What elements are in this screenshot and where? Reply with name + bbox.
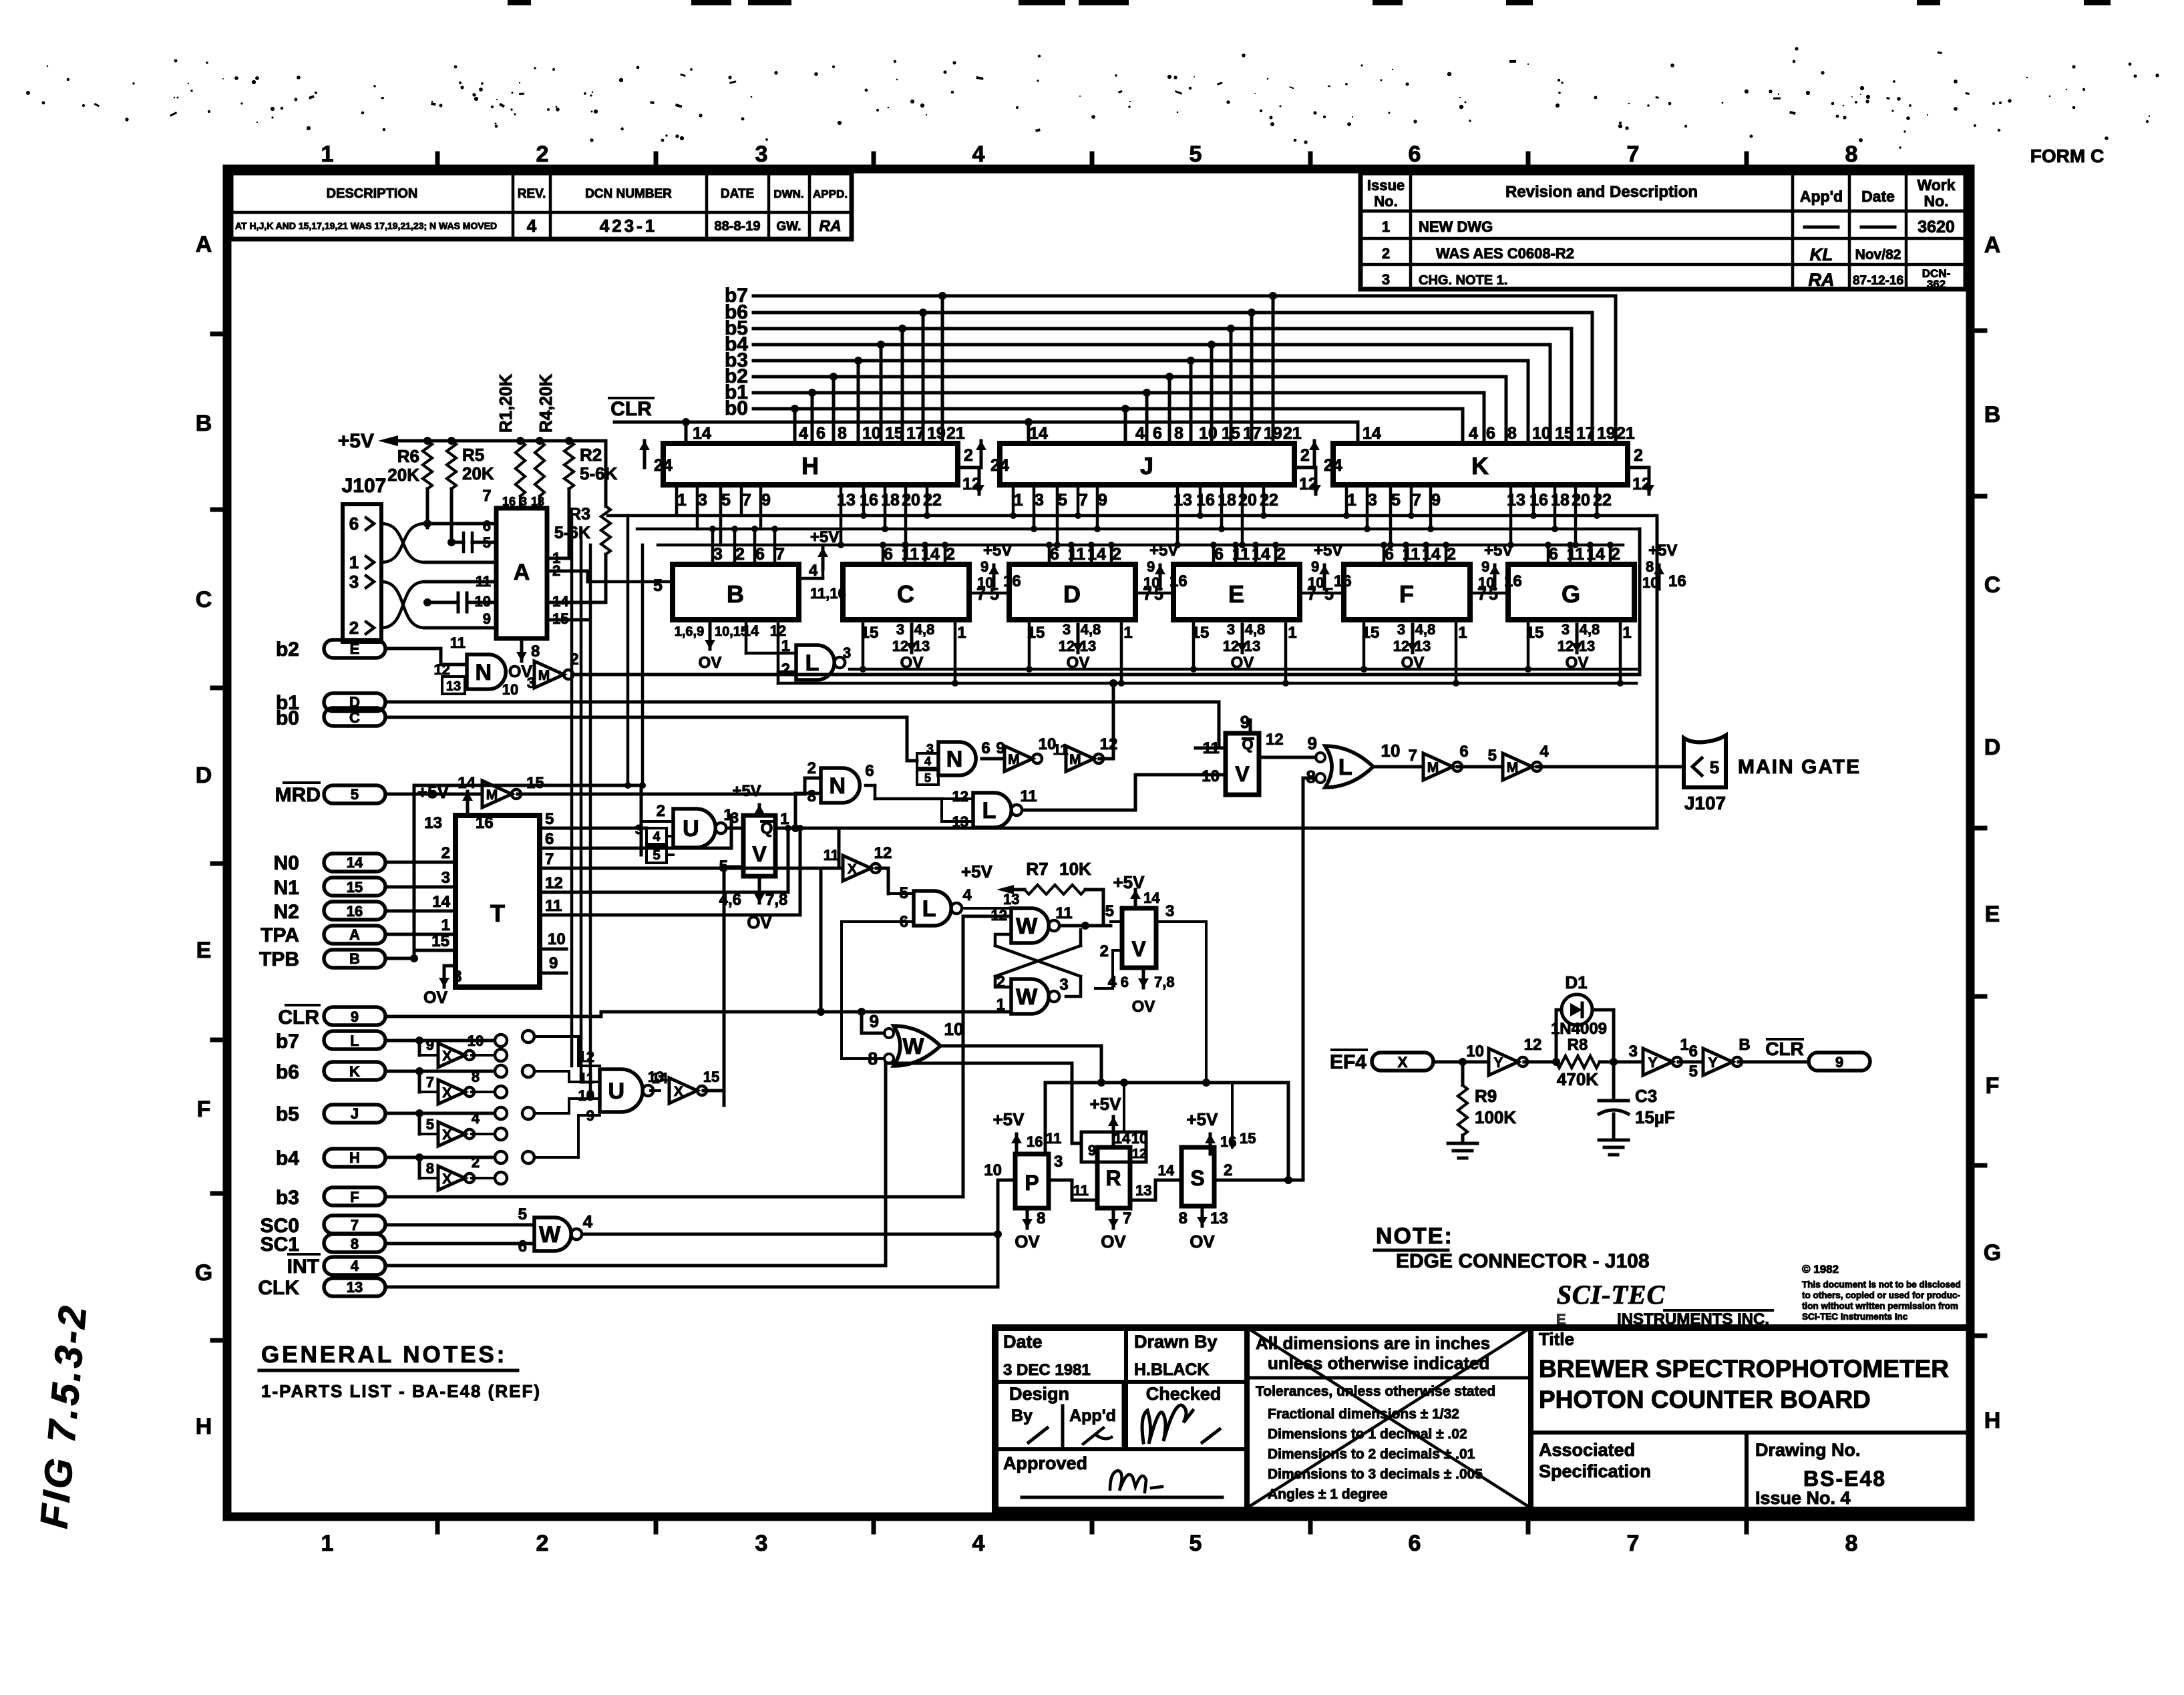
input EF4 connector X <box>1330 1050 1489 1073</box>
svg-text:12: 12 <box>1059 638 1075 654</box>
gate U1 (NAND 4-in) <box>635 785 733 863</box>
svg-text:5: 5 <box>924 771 931 785</box>
svg-text:W: W <box>1016 914 1038 939</box>
svg-text:12: 12 <box>1393 638 1409 654</box>
svg-text:7: 7 <box>1627 1531 1640 1556</box>
svg-text:88-8-19: 88-8-19 <box>715 219 761 234</box>
svg-text:7: 7 <box>1412 491 1421 510</box>
svg-text:SC1: SC1 <box>260 1234 299 1256</box>
svg-text:4,8: 4,8 <box>1245 621 1266 638</box>
IC F (latch) <box>1300 542 1522 687</box>
svg-text:No.: No. <box>1924 192 1948 210</box>
svg-text:L: L <box>805 650 820 676</box>
svg-text:4: 4 <box>924 755 931 768</box>
svg-text:17: 17 <box>906 424 925 443</box>
svg-text:1,6,9: 1,6,9 <box>675 624 704 639</box>
svg-text:X: X <box>442 1085 451 1101</box>
svg-text:NOTE:: NOTE: <box>1376 1223 1453 1249</box>
svg-text:5: 5 <box>1710 757 1719 777</box>
input MRD connector 5 <box>275 783 482 806</box>
svg-text:7: 7 <box>1079 491 1088 510</box>
svg-text:14: 14 <box>1029 424 1048 443</box>
svg-text:9: 9 <box>1481 558 1489 575</box>
svg-text:Work: Work <box>1917 176 1955 194</box>
svg-text:1: 1 <box>1347 491 1356 510</box>
svg-text:H: H <box>1984 1408 2001 1433</box>
svg-text:F: F <box>197 1097 211 1122</box>
jumper terminals column <box>522 1030 588 1163</box>
ground (C3) <box>1599 1139 1628 1142</box>
gate N3 (AND 3-in) <box>917 739 1005 785</box>
svg-text:11: 11 <box>1073 1182 1089 1199</box>
svg-text:B: B <box>1984 402 2001 427</box>
svg-text:13: 13 <box>446 679 461 694</box>
input CLR connector 9 <box>278 868 1009 1033</box>
svg-text:4,6: 4,6 <box>719 891 741 909</box>
input b4 connector H <box>276 1147 507 1178</box>
resistor R8 470K <box>1556 1036 1614 1089</box>
svg-text:H: H <box>801 452 819 480</box>
svg-text:5: 5 <box>483 534 491 551</box>
svg-text:Revision and Description: Revision and Description <box>1505 183 1698 201</box>
input b1 connector D <box>276 692 1219 714</box>
svg-text:K: K <box>1471 452 1489 480</box>
svg-text:+5V: +5V <box>961 862 993 882</box>
svg-text:NEW DWG: NEW DWG <box>1419 218 1493 235</box>
svg-text:24: 24 <box>654 456 673 475</box>
svg-text:X: X <box>848 862 857 877</box>
svg-text:5: 5 <box>1105 902 1114 920</box>
svg-text:6: 6 <box>1409 142 1421 167</box>
svg-text:2: 2 <box>1611 545 1620 564</box>
copyright block <box>1802 1263 1961 1322</box>
svg-text:GW.: GW. <box>777 220 801 234</box>
svg-text:2: 2 <box>349 618 359 638</box>
svg-text:2: 2 <box>1447 545 1456 564</box>
svg-text:2: 2 <box>1300 446 1310 465</box>
svg-text:5: 5 <box>518 1205 527 1223</box>
svg-text:3: 3 <box>713 545 723 564</box>
svg-text:1: 1 <box>1458 624 1467 642</box>
svg-text:6: 6 <box>545 830 554 848</box>
svg-text:V: V <box>1235 762 1250 786</box>
wires counter outputs to latch rails <box>588 485 1657 582</box>
output CLR connector 9 <box>1765 1039 1870 1071</box>
twisted pair wires <box>381 520 496 628</box>
trunk verticals <box>572 516 646 1099</box>
svg-text:1: 1 <box>1123 624 1132 642</box>
svg-text:3: 3 <box>1165 902 1174 920</box>
svg-text:10: 10 <box>475 593 491 610</box>
svg-text:CLR: CLR <box>1765 1039 1804 1059</box>
svg-text:1-PARTS LIST - BA-E48 (REF): 1-PARTS LIST - BA-E48 (REF) <box>261 1381 541 1401</box>
svg-text:Title: Title <box>1539 1329 1574 1349</box>
svg-text:19: 19 <box>927 424 946 443</box>
svg-text:423-1: 423-1 <box>600 216 658 236</box>
diode D1 1N4009 <box>1551 972 1618 1066</box>
IC R <box>1081 1094 1181 1252</box>
svg-text:BREWER SPECTROPHOTOMETER: BREWER SPECTROPHOTOMETER <box>1539 1355 1949 1382</box>
svg-text:2: 2 <box>1634 446 1643 465</box>
svg-text:8: 8 <box>1845 1531 1858 1556</box>
IC B (latch) <box>653 526 846 672</box>
svg-text:5-6K: 5-6K <box>580 463 618 484</box>
svg-text:6: 6 <box>1121 974 1129 990</box>
svg-text:H: H <box>349 1149 360 1166</box>
svg-text:OV: OV <box>1132 998 1155 1016</box>
svg-text:C: C <box>1984 572 2001 598</box>
svg-text:3: 3 <box>441 869 450 887</box>
svg-text:DESCRIPTION: DESCRIPTION <box>327 186 418 201</box>
svg-text:9: 9 <box>1147 558 1155 575</box>
svg-text:b0: b0 <box>276 707 299 729</box>
svg-text:4: 4 <box>972 142 985 167</box>
capacitor C1 <box>447 533 496 552</box>
svg-text:3: 3 <box>1629 1043 1638 1061</box>
svg-text:9: 9 <box>980 558 988 575</box>
gate L4 (NAND) <box>842 884 1019 1059</box>
svg-text:© 1982: © 1982 <box>1802 1263 1839 1276</box>
gate N2 (AND) <box>807 759 942 805</box>
svg-text:14: 14 <box>432 893 450 911</box>
resistor R3 5-6K <box>554 505 610 602</box>
svg-text:to others, copied or used for: to others, copied or used for produc- <box>1802 1290 1960 1300</box>
svg-text:J107: J107 <box>1684 793 1726 813</box>
svg-text:2: 2 <box>1100 942 1109 960</box>
svg-text:By: By <box>1011 1406 1033 1425</box>
svg-text:3: 3 <box>1035 491 1044 510</box>
svg-text:D: D <box>196 763 212 788</box>
note text <box>1375 1223 1650 1272</box>
svg-text:7: 7 <box>482 487 491 505</box>
svg-text:20K: 20K <box>387 465 419 485</box>
svg-text:2: 2 <box>807 759 816 777</box>
svg-text:4: 4 <box>472 1110 480 1127</box>
svg-text:4: 4 <box>962 886 972 904</box>
SCI-TEC logo <box>1556 1280 1773 1328</box>
svg-text:A: A <box>1984 232 2001 258</box>
svg-text:3: 3 <box>349 572 359 592</box>
svg-text:13: 13 <box>1080 638 1096 654</box>
resistor R9 100K <box>1458 1062 1516 1143</box>
svg-text:13: 13 <box>1210 1209 1228 1228</box>
IC S <box>1179 778 1316 1252</box>
flip-flop V1 <box>719 518 1657 1105</box>
IC J (counter) <box>976 424 1321 510</box>
svg-text:Dimensions to 1 decimal ± .02: Dimensions to 1 decimal ± .02 <box>1268 1427 1467 1442</box>
svg-text:2: 2 <box>536 142 549 167</box>
svg-text:13: 13 <box>1579 638 1595 654</box>
svg-text:N: N <box>476 660 492 685</box>
svg-text:6: 6 <box>1459 743 1468 761</box>
inverter Y2 <box>1614 1036 1703 1075</box>
svg-text:5: 5 <box>351 786 359 803</box>
flip-flop V3 <box>1095 872 1206 1083</box>
svg-text:1: 1 <box>996 996 1005 1014</box>
svg-text:F: F <box>1986 1073 2000 1099</box>
svg-text:11: 11 <box>476 573 491 590</box>
svg-text:D: D <box>1063 580 1081 608</box>
rail from L1 output under latches <box>778 620 1636 683</box>
svg-text:1: 1 <box>1622 624 1631 642</box>
svg-text:10: 10 <box>862 424 881 443</box>
svg-text:11: 11 <box>1046 1130 1061 1147</box>
svg-text:6: 6 <box>981 739 990 757</box>
svg-text:3: 3 <box>1059 976 1068 994</box>
svg-text:1: 1 <box>321 1531 334 1556</box>
svg-text:DWN.: DWN. <box>773 188 803 200</box>
inverter M2 <box>458 774 821 807</box>
svg-text:W: W <box>902 1034 924 1059</box>
wires T outputs <box>540 815 839 915</box>
svg-text:S: S <box>1190 1166 1204 1190</box>
svg-text:L: L <box>350 1032 359 1049</box>
svg-text:8: 8 <box>1845 142 1858 167</box>
svg-text:9: 9 <box>426 1037 434 1053</box>
svg-text:2: 2 <box>657 802 665 820</box>
svg-text:3: 3 <box>755 142 768 167</box>
input b0 connector C <box>276 707 917 761</box>
svg-text:15: 15 <box>347 879 363 896</box>
svg-text:11: 11 <box>1020 787 1037 805</box>
svg-text:6: 6 <box>884 545 893 564</box>
svg-text:3: 3 <box>1382 271 1390 288</box>
inverter Y1 <box>1466 1036 1556 1075</box>
svg-text:12: 12 <box>874 844 892 862</box>
svg-text:13: 13 <box>424 814 442 832</box>
svg-text:M: M <box>1069 752 1081 767</box>
svg-text:13: 13 <box>1415 638 1431 654</box>
svg-text:Fractional dimensions ± 1/32: Fractional dimensions ± 1/32 <box>1268 1406 1459 1422</box>
svg-text:6: 6 <box>1689 1043 1698 1061</box>
svg-text:b6: b6 <box>276 1061 299 1083</box>
svg-text:4: 4 <box>1539 743 1549 761</box>
svg-text:MRD: MRD <box>275 784 321 806</box>
svg-text:Date: Date <box>1861 188 1895 205</box>
svg-text:24: 24 <box>1324 456 1342 475</box>
svg-text:16: 16 <box>476 814 494 832</box>
svg-text:BS-E48: BS-E48 <box>1803 1467 1886 1491</box>
svg-text:12: 12 <box>1524 1036 1542 1054</box>
svg-text:Associated: Associated <box>1539 1440 1635 1460</box>
svg-text:L: L <box>1338 755 1352 780</box>
svg-text:3: 3 <box>1562 621 1570 638</box>
svg-text:6: 6 <box>1385 545 1394 564</box>
svg-text:+5V: +5V <box>1484 542 1513 560</box>
IC D (latch) <box>969 542 1188 687</box>
svg-text:4: 4 <box>1108 973 1117 991</box>
svg-text:R8: R8 <box>1568 1036 1588 1054</box>
svg-text:J: J <box>351 1105 359 1122</box>
svg-text:N: N <box>946 747 963 772</box>
svg-text:9: 9 <box>483 610 491 627</box>
svg-text:4: 4 <box>799 424 808 443</box>
svg-text:FORM C: FORM C <box>2030 146 2104 166</box>
inverter X1 <box>426 1032 507 1067</box>
svg-text:R4,20K: R4,20K <box>536 374 556 433</box>
svg-text:CLR: CLR <box>278 1006 319 1028</box>
svg-text:3: 3 <box>1227 621 1235 638</box>
resistor R7 10K <box>961 859 1103 930</box>
svg-text:App'd: App'd <box>1069 1406 1116 1425</box>
svg-text:8: 8 <box>838 424 847 443</box>
svg-text:G: G <box>1562 580 1580 608</box>
svg-text:2: 2 <box>1224 1161 1232 1179</box>
svg-text:U: U <box>683 816 699 841</box>
svg-text:3: 3 <box>731 809 739 826</box>
svg-text:4: 4 <box>653 829 661 844</box>
svg-text:3: 3 <box>698 491 707 510</box>
svg-text:15µF: 15µF <box>1635 1107 1675 1127</box>
svg-text:14: 14 <box>1143 890 1160 906</box>
figure number label <box>32 1302 95 1530</box>
svg-text:X: X <box>442 1171 451 1187</box>
svg-text:14: 14 <box>1158 1162 1175 1179</box>
svg-text:Nov/82: Nov/82 <box>1855 247 1901 262</box>
svg-text:Checked: Checked <box>1146 1384 1222 1404</box>
svg-text:+5V: +5V <box>1149 542 1178 560</box>
resistor R1 20K <box>496 374 525 496</box>
svg-text:10: 10 <box>1466 1043 1484 1061</box>
gate L3 (NOR to main gate) <box>1306 733 1423 787</box>
svg-text:D1: D1 <box>1565 972 1587 992</box>
svg-text:13: 13 <box>1135 1182 1151 1199</box>
IC E (latch) <box>1135 542 1352 687</box>
inverter M4 <box>1053 679 1117 771</box>
svg-text:Drawing No.: Drawing No. <box>1755 1440 1861 1460</box>
svg-text:J: J <box>1140 452 1153 480</box>
svg-text:6: 6 <box>349 514 359 534</box>
svg-text:X: X <box>442 1049 451 1064</box>
svg-text:12: 12 <box>1558 638 1574 654</box>
svg-text:N0: N0 <box>274 852 299 874</box>
gate W1 (NAND SC) <box>260 1205 1002 1256</box>
svg-text:DATE: DATE <box>721 187 754 201</box>
inverter X3 <box>426 1110 507 1146</box>
svg-text:6: 6 <box>755 545 765 564</box>
svg-text:U: U <box>608 1079 625 1104</box>
svg-text:1: 1 <box>1288 624 1296 642</box>
svg-text:1: 1 <box>321 142 334 167</box>
svg-text:5: 5 <box>1190 1531 1202 1556</box>
svg-text:16: 16 <box>1220 1133 1236 1150</box>
svg-text:362: 362 <box>1927 278 1946 291</box>
svg-text:b3: b3 <box>276 1187 299 1209</box>
svg-text:9: 9 <box>1311 558 1319 575</box>
wire TPB junction <box>410 954 418 962</box>
svg-text:+5V: +5V <box>1187 1109 1219 1129</box>
svg-text:+5V: +5V <box>1090 1094 1122 1114</box>
svg-text:15: 15 <box>1240 1130 1256 1147</box>
svg-text:8: 8 <box>807 787 816 805</box>
svg-text:4,8: 4,8 <box>1081 621 1101 638</box>
svg-text:K: K <box>349 1063 360 1080</box>
svg-text:12: 12 <box>578 1049 594 1065</box>
svg-text:A: A <box>514 560 530 585</box>
svg-text:F: F <box>350 1189 359 1205</box>
svg-text:Specification: Specification <box>1539 1461 1651 1481</box>
svg-text:H.BLACK: H.BLACK <box>1134 1360 1210 1379</box>
svg-text:8: 8 <box>531 642 540 661</box>
svg-text:16: 16 <box>1027 1133 1043 1150</box>
input b6 connector K <box>276 1061 507 1092</box>
svg-text:SCI-TEC Instruments Inc: SCI-TEC Instruments Inc <box>1802 1312 1908 1322</box>
svg-text:12: 12 <box>545 874 563 892</box>
inverter X4 <box>426 1154 507 1190</box>
svg-text:RA: RA <box>1809 270 1835 290</box>
svg-text:9: 9 <box>761 491 771 510</box>
svg-text:Drawn By: Drawn By <box>1134 1332 1218 1352</box>
latch cross coupling <box>995 926 1081 996</box>
capacitor C3 15uF <box>1599 1062 1675 1140</box>
svg-text:b2: b2 <box>276 638 299 661</box>
svg-text:C3: C3 <box>1635 1086 1657 1106</box>
svg-text:9: 9 <box>1431 491 1441 510</box>
svg-text:100K: 100K <box>1475 1107 1516 1127</box>
svg-text:H: H <box>196 1414 212 1439</box>
svg-text:11: 11 <box>450 634 466 651</box>
svg-text:7: 7 <box>775 545 785 564</box>
svg-text:OV: OV <box>1190 1232 1215 1252</box>
svg-text:+5V: +5V <box>732 782 761 800</box>
svg-text:+5V: +5V <box>810 528 839 546</box>
svg-text:Angles ± 1 degree: Angles ± 1 degree <box>1268 1487 1388 1502</box>
svg-text:21: 21 <box>1283 424 1302 443</box>
IC K (counter) <box>1309 424 1654 510</box>
bus lines b7-b0 <box>725 285 1616 443</box>
svg-text:G: G <box>195 1260 212 1286</box>
svg-text:B: B <box>727 580 744 608</box>
svg-text:8: 8 <box>868 1049 878 1069</box>
svg-text:3: 3 <box>635 823 643 837</box>
svg-text:3: 3 <box>1054 1153 1063 1171</box>
svg-text:4: 4 <box>972 1531 985 1556</box>
svg-text:10: 10 <box>548 930 566 948</box>
svg-text:+5V: +5V <box>1113 872 1145 892</box>
gate L1 (NAND under B) <box>746 620 851 680</box>
svg-text:V: V <box>1131 937 1146 961</box>
inverter X5 <box>651 1069 724 1103</box>
svg-text:1: 1 <box>780 810 789 828</box>
svg-text:5: 5 <box>653 848 660 863</box>
svg-text:4: 4 <box>351 1258 359 1274</box>
svg-text:6: 6 <box>1409 1531 1421 1556</box>
svg-text:14: 14 <box>652 1070 669 1087</box>
svg-text:10: 10 <box>578 1087 594 1104</box>
inverter X6 <box>824 844 892 894</box>
svg-text:DCN NUMBER: DCN NUMBER <box>585 187 672 201</box>
svg-text:B: B <box>349 950 360 967</box>
svg-text:5: 5 <box>721 491 731 510</box>
svg-text:17: 17 <box>1243 424 1262 443</box>
svg-text:9: 9 <box>1240 712 1250 732</box>
svg-text:19: 19 <box>1597 424 1616 443</box>
svg-text:10K: 10K <box>1059 859 1091 879</box>
svg-text:R5: R5 <box>462 445 484 465</box>
svg-text:M: M <box>538 668 550 683</box>
input b7 connector L <box>276 1030 507 1055</box>
svg-text:1: 1 <box>441 916 450 934</box>
svg-text:12: 12 <box>1266 731 1284 749</box>
svg-text:N: N <box>830 773 846 799</box>
svg-text:14: 14 <box>347 854 363 871</box>
svg-text:+5V: +5V <box>983 542 1012 560</box>
svg-text:2: 2 <box>946 545 955 564</box>
svg-text:6: 6 <box>1050 545 1059 564</box>
svg-text:13: 13 <box>914 638 930 654</box>
svg-text:4: 4 <box>809 562 818 580</box>
svg-text:1N4009: 1N4009 <box>1551 1020 1607 1038</box>
